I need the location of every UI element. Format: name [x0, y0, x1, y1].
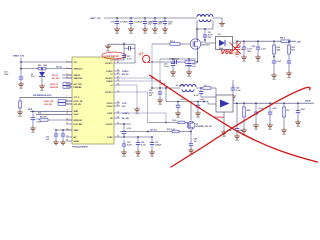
svg-text:1V35: 1V35 [122, 103, 126, 105]
transistor Q2 [187, 121, 195, 129]
ground C25 [271, 73, 277, 78]
wire C26 dn [288, 65, 290, 71]
pin VLDO1 [114, 102, 120, 104]
pin PGND1 [114, 70, 120, 72]
svg-text:Q3: Q3 [196, 123, 198, 125]
ground C18 [142, 27, 148, 32]
ground R31 [281, 128, 287, 133]
junction C44 [255, 102, 257, 104]
svg-text:243k: 243k [276, 48, 280, 51]
resistor DCDC_EN [58, 100, 66, 103]
capacitor C20 [163, 18, 167, 27]
wire sw bus [197, 28, 213, 30]
ground C37 [149, 150, 155, 155]
wire R24-C25 [273, 54, 275, 59]
svg-text:4.7uF: 4.7uF [127, 127, 131, 130]
wire gate row [152, 43, 170, 45]
wire zener gnd [41, 78, 43, 85]
svg-text:68.3: 68.3 [291, 49, 295, 51]
junction C16 top [116, 17, 118, 19]
svg-text:C30 100pF: C30 100pF [105, 54, 120, 58]
svg-text:243k: 243k [246, 109, 250, 112]
wire pin81 to v160 [120, 80, 160, 82]
resistor R27 [203, 87, 211, 90]
svg-text:C22 1000pF: C22 1000pF [169, 58, 180, 60]
wire top rail [104, 17, 197, 19]
wire source row [152, 61, 197, 63]
inductor L2 [180, 85, 196, 92]
red X stroke 1 [150, 75, 318, 162]
svg-text:VCC_S: VCC_S [74, 97, 81, 99]
ground D1 [39, 84, 45, 89]
capacitor C40 [231, 84, 235, 94]
svg-text:19: 19 [117, 79, 119, 81]
wire row122b [185, 122, 187, 125]
ground C24 [255, 55, 261, 60]
capacitor C48g [189, 142, 193, 149]
svg-text:R19 0: R19 0 [170, 41, 175, 43]
capacitor C21 [203, 29, 207, 43]
svg-text:C19: C19 [149, 21, 152, 23]
op-amp U1 (PMIC) body [72, 57, 114, 144]
junction C23 [243, 40, 245, 42]
ground C20 [162, 27, 168, 32]
pin PWRFAIL [66, 86, 72, 88]
wire row101 [166, 88, 216, 104]
pin L1 [114, 59, 120, 61]
ground C45 [267, 123, 273, 128]
svg-text:SNOOZE: SNOOZE [50, 87, 59, 89]
wire v160 [159, 59, 161, 88]
wire R25 [288, 41, 290, 45]
resistor R18 [40, 119, 48, 122]
svg-text:L2: L2 [110, 74, 112, 76]
svg-text:VLDO2: VLDO2 [107, 106, 113, 108]
ground C16 [114, 27, 120, 32]
wire SCL [36, 113, 72, 115]
red omega [143, 55, 150, 62]
svg-text:VINDCDC1: VINDCDC1 [74, 68, 83, 70]
svg-text:DCDC_EN: DCDC_EN [74, 101, 83, 103]
ground C48g [188, 148, 194, 153]
resistor R31 [283, 103, 285, 107]
wire r29b [179, 131, 191, 133]
svg-text:220UF: 220UF [305, 101, 312, 103]
pin VLDO2 [114, 105, 120, 107]
wire Q1 source [196, 48, 198, 62]
wire C25 dn [273, 65, 275, 73]
capacitor C14 [31, 111, 35, 126]
wire row122 [148, 121, 179, 123]
wire R24 [273, 41, 275, 45]
wire C48 to U3 [201, 96, 216, 98]
svg-text:23: 23 [117, 61, 119, 63]
red mini X over cap [230, 43, 242, 55]
wire vbat vertical [20, 58, 22, 75]
junction C24 [257, 40, 259, 42]
junction C32 [172, 58, 174, 60]
diode D2 [219, 40, 225, 46]
pin DCDC_EN [66, 100, 72, 102]
capacitor C23 [242, 41, 246, 55]
svg-text:30: 30 [117, 122, 119, 124]
ground R17 [17, 110, 23, 115]
svg-text:R18 1M: R18 1M [40, 117, 47, 119]
diode D2 box [216, 37, 233, 50]
ground C26 [286, 71, 292, 76]
svg-text:SUPPRESSOR-INT/C: SUPPRESSOR-INT/C [33, 95, 52, 97]
wire R30 dn [243, 117, 245, 128]
ground C41 [157, 98, 163, 103]
pin DEFDCDC [66, 119, 72, 121]
wire [62, 77, 72, 79]
ground C46 [295, 120, 301, 125]
svg-text:D2: D2 [218, 34, 220, 36]
capacitor C46 [296, 103, 300, 120]
capacitor C36 [136, 137, 140, 150]
red capacitor note [234, 41, 240, 56]
capacitor C18 [143, 18, 147, 27]
ground C13 [18, 82, 24, 87]
svg-text:12: 12 [67, 118, 69, 120]
pin LDO_EN [66, 103, 72, 105]
capacitor C19 [153, 18, 157, 27]
capacitor C24 [256, 41, 260, 55]
capacitor C42 [176, 102, 180, 112]
op-amp U3 box [216, 95, 233, 112]
svg-text:HOLD_B: HOLD_B [50, 84, 58, 86]
capacitor C25 [272, 59, 276, 65]
svg-text:15: 15 [67, 135, 69, 137]
wire [66, 103, 73, 105]
svg-text:TRES: TRES [74, 130, 80, 132]
wire [48, 119, 72, 121]
ground C50 [234, 134, 240, 139]
resistor R25 [288, 45, 291, 54]
svg-text:47: 47 [139, 52, 145, 57]
resistor R19 [170, 43, 180, 46]
resistor R20 [185, 61, 195, 64]
svg-text:R16: R16 [38, 65, 41, 67]
svg-text:PGND2: PGND2 [106, 81, 112, 83]
pin COMP [114, 112, 120, 114]
capacitor C33 [187, 59, 191, 70]
wire row VIN b [46, 68, 72, 70]
resistor R17 [19, 101, 22, 108]
svg-text:R26 0: R26 0 [280, 38, 285, 40]
resistor row HOLD_B [63, 83, 70, 86]
svg-text:HOT_RST: HOT_RST [74, 84, 83, 86]
svg-text:22: 22 [117, 69, 119, 71]
svg-text:ST2.2L: ST2.2L [56, 67, 63, 69]
svg-text:TPS650250RHB: TPS650250RHB [72, 147, 88, 149]
wire row VIN [21, 68, 38, 70]
ground U3 [221, 130, 227, 135]
wire Q2 source [190, 130, 192, 142]
capacitor C26 [287, 59, 291, 65]
svg-text:C17: C17 [125, 21, 128, 23]
svg-text:Si1308EDL_MR_GM: Si1308EDL_MR_GM [196, 126, 213, 128]
ground top [105, 44, 111, 49]
svg-text:LOW_BAT: LOW_BAT [74, 123, 84, 126]
junction R30 [243, 102, 245, 104]
pin PGOOD [114, 123, 120, 125]
svg-text:PGND: PGND [107, 137, 113, 139]
svg-text:L2 1.0uH: L2 1.0uH [176, 85, 185, 87]
junction C50 [236, 102, 238, 104]
svg-text:C20: C20 [159, 21, 162, 23]
wire top gnd [108, 43, 135, 45]
svg-text:16: 16 [67, 139, 69, 141]
svg-text:SW_B1: SW_B1 [122, 74, 129, 76]
junction C17 top [130, 17, 132, 19]
pin VBACKUP [66, 77, 72, 79]
ground C17 [128, 27, 134, 32]
svg-text:PGOOD: PGOOD [106, 124, 113, 126]
wire pin78 to v152 [120, 77, 152, 79]
resistor LDO_EN [58, 103, 66, 106]
svg-text:VDCDC1: VDCDC1 [105, 63, 112, 65]
svg-text:17: 17 [117, 90, 119, 92]
svg-text:100k: 100k [43, 65, 47, 67]
wire Q2 drain [190, 102, 192, 121]
svg-text:20: 20 [117, 76, 119, 78]
resistor R24 [273, 45, 276, 54]
capacitor C31 [122, 53, 126, 60]
wire [70, 86, 72, 88]
svg-text:LDO_EN: LDO_EN [44, 104, 52, 106]
svg-text:AC_DET: AC_DET [52, 77, 60, 80]
ground C33 [186, 70, 192, 75]
svg-text:FB_24V: FB_24V [122, 117, 130, 120]
svg-text:11: 11 [67, 113, 69, 115]
pin L3 [114, 84, 120, 86]
ground C35 [121, 150, 127, 155]
svg-text:R22 51.0k: R22 51.0k [167, 129, 175, 131]
wire diode cathode [233, 41, 238, 43]
svg-text:24V: 24V [297, 41, 301, 44]
svg-text:25: 25 [117, 116, 119, 118]
svg-text:10.0k: 10.0k [172, 120, 177, 122]
zener D1 [39, 72, 45, 77]
pin INT [66, 136, 72, 138]
wire rail y103 [233, 102, 314, 104]
svg-text:28: 28 [117, 101, 119, 103]
capacitor C48 [199, 88, 203, 97]
svg-text:21: 21 [117, 72, 119, 74]
wire row VCC [21, 61, 72, 63]
wire v152 [151, 44, 153, 88]
wire pgnd row [120, 136, 152, 138]
wire SDA [30, 110, 72, 112]
pin FB [114, 117, 120, 119]
svg-text:27: 27 [117, 104, 119, 106]
svg-text:DEFDCDC: DEFDCDC [74, 120, 83, 122]
capacitor C44 [254, 103, 258, 123]
ground v137 [134, 107, 140, 112]
capacitor C22 [170, 60, 181, 64]
wire R31 dn [283, 117, 285, 128]
pin L2 [114, 73, 120, 75]
junction C33 [188, 58, 190, 60]
capacitor C43 [196, 102, 200, 112]
wire pin113 to row122 [120, 113, 166, 122]
svg-text:L3: L3 [110, 85, 112, 87]
wire zener [41, 69, 43, 72]
resistor R16 [38, 67, 46, 70]
wire suppressor [20, 96, 72, 98]
capacitor C35 [122, 140, 126, 150]
capacitor C17 [129, 18, 133, 27]
svg-text:1.0: 1.0 [204, 85, 207, 87]
ground C14 [30, 126, 36, 131]
svg-text:VLDO1: VLDO1 [107, 103, 113, 105]
wire [66, 100, 73, 102]
pin VCC [66, 61, 72, 63]
resistor row SNOOZE [63, 86, 70, 89]
ground C23 [241, 55, 247, 60]
svg-text:VBACKUP: VBACKUP [74, 77, 84, 80]
pin PGND2 [114, 80, 120, 82]
svg-text:L1: L1 [110, 60, 112, 62]
svg-text:10: 10 [67, 110, 69, 112]
ground C40 [230, 94, 236, 99]
transistor Q1 [190, 39, 200, 49]
resistor R30 [243, 103, 245, 107]
ground R30 [241, 128, 247, 133]
junction C45 [269, 102, 271, 104]
capacitor C15b [61, 130, 65, 140]
ground C32 [170, 70, 176, 75]
svg-text:SCLK: SCLK [74, 114, 80, 116]
wire diode anode [205, 42, 216, 44]
pin VINDCDC1 [66, 68, 72, 70]
pin VINLDO [66, 74, 72, 76]
wire Q1 drain [196, 29, 198, 40]
junction C46 [297, 102, 299, 104]
wire pin92 to v147 [120, 92, 148, 122]
wire c34 [123, 124, 125, 128]
pin LOW_BAT [66, 123, 72, 125]
svg-text:COMP: COMP [107, 113, 113, 115]
svg-text:VDCDC3: VDCDC3 [105, 92, 112, 94]
pin VDCDC2 [114, 77, 120, 79]
svg-text:C16: C16 [111, 21, 114, 23]
junction R31 [283, 102, 285, 104]
junction C19 top [154, 17, 156, 19]
pin VDCDC1 [114, 62, 120, 64]
svg-text:SDA: SDA [28, 108, 33, 111]
svg-text:PGND1: PGND1 [106, 71, 112, 73]
ground C36 [135, 150, 141, 155]
wire L1 out [213, 18, 222, 22]
svg-text:13: 13 [67, 122, 69, 124]
pin PGND [114, 136, 120, 138]
pin HOT_RST [66, 83, 72, 85]
capacitor C16 [115, 18, 119, 27]
pin VCC_S [66, 96, 72, 98]
svg-text:VDCDC2: VDCDC2 [105, 78, 112, 80]
capacitor C41 [158, 88, 162, 98]
wire output rail [237, 40, 296, 42]
diode U3 [220, 100, 230, 108]
wire [70, 83, 72, 85]
svg-text:51k: 51k [286, 110, 289, 112]
capacitor C13 [19, 74, 23, 82]
capacitor C34 [122, 128, 126, 137]
wire v124 [120, 42, 124, 60]
wire R17 dn [19, 108, 21, 110]
capacitor C30 [124, 46, 135, 50]
wire pin124 [120, 123, 131, 125]
wire gate row2 [180, 43, 193, 45]
svg-text:PGND1: PGND1 [122, 71, 129, 73]
wire R17 [19, 97, 21, 101]
pin AGND [66, 140, 72, 142]
svg-text:AGND: AGND [74, 140, 80, 143]
wire L1 left drop [196, 21, 198, 41]
svg-text:24V_EN: 24V_EN [150, 128, 157, 131]
junction R24 [273, 40, 275, 42]
ground C19 [152, 27, 158, 32]
ground C42 [175, 111, 181, 116]
wire U3 gnd [223, 112, 225, 130]
capacitor C32 [171, 59, 175, 70]
ground C15b [60, 140, 66, 145]
svg-text:VINLDO: VINLDO [74, 75, 81, 77]
wire row y130 [56, 129, 72, 131]
svg-text:VBAT_1V8: VBAT_1V8 [13, 55, 25, 58]
ground C44 [253, 123, 259, 128]
capacitor C45 [268, 103, 272, 123]
svg-text:V6C: V6C [221, 49, 234, 56]
wire C50 [236, 103, 238, 125]
pin TRES [66, 129, 72, 131]
svg-text:DCDC_EN: DCDC_EN [44, 101, 54, 103]
wire row131 [120, 131, 172, 133]
svg-text:PB_IN: PB_IN [52, 75, 58, 77]
svg-text:CSD17571: CSD17571 [201, 44, 210, 46]
svg-text:C24: C24 [252, 45, 255, 48]
ground after L1 [219, 22, 225, 27]
svg-text:29: 29 [117, 135, 119, 137]
capacitor C37 [150, 137, 154, 150]
svg-text:VANT_1V8: VANT_1V8 [90, 17, 101, 20]
svg-text:26: 26 [117, 111, 119, 113]
wire R25 down [288, 54, 290, 59]
svg-text:1000pF: 1000pF [155, 144, 162, 146]
resistor R26 series [281, 40, 290, 43]
junction C18 top [144, 17, 146, 19]
wire v135 [120, 44, 135, 63]
junction C20 top [164, 17, 166, 19]
wire L1 right drop [212, 21, 214, 30]
capacitor C50 [235, 125, 239, 134]
pin SCLK [66, 113, 72, 115]
svg-text:COMP1: COMP1 [122, 113, 129, 115]
wire row59 [160, 58, 196, 60]
resistor R28 [178, 121, 185, 124]
ground C15 [53, 140, 59, 145]
svg-text:3V3: 3V3 [122, 106, 125, 108]
resistor R29 [172, 130, 179, 133]
pin VDCDC3 [114, 91, 120, 93]
ground C43 [195, 111, 201, 116]
red X stroke 2 [171, 87, 310, 167]
capacitor C15 [54, 130, 58, 140]
svg-text:18: 18 [117, 83, 119, 85]
red note C30 oval [102, 52, 126, 59]
